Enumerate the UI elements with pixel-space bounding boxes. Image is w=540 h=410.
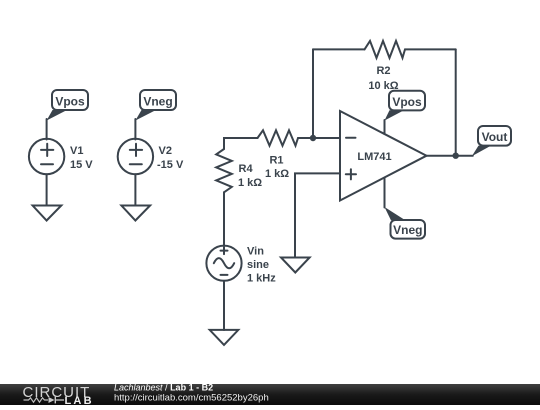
wire V1 flag lead xyxy=(46,119,48,140)
ground (V2) xyxy=(121,206,150,221)
svg-text:V2: V2 xyxy=(159,145,172,157)
wire feedback top right xyxy=(405,48,456,50)
svg-text:Vneg: Vneg xyxy=(143,95,172,109)
node junction at inverting input xyxy=(310,135,316,141)
svg-text:Vneg: Vneg xyxy=(393,223,422,237)
ground (V1) xyxy=(33,206,62,221)
svg-text:V1: V1 xyxy=(70,145,83,157)
svg-text:1 kHz: 1 kHz xyxy=(247,273,276,285)
svg-text:15 V: 15 V xyxy=(70,159,93,171)
wire non-inverting input to ground xyxy=(295,173,340,257)
wire Vin to ground xyxy=(223,281,225,330)
resistor R2 xyxy=(365,41,406,58)
svg-text:Vpos: Vpos xyxy=(392,95,422,109)
wire V2 to ground xyxy=(134,174,136,205)
wire feedback top left xyxy=(313,48,365,50)
label Vin sine 1 kHz xyxy=(247,246,276,285)
net flag Vout xyxy=(472,126,511,156)
op-amp V+ supply pin xyxy=(384,120,386,134)
svg-text:R4: R4 xyxy=(239,163,254,175)
source Vin sine xyxy=(206,246,241,281)
CircuitLab logo resistor symbol xyxy=(24,398,49,402)
wire V2 flag lead xyxy=(134,119,136,140)
svg-text:Lachlanbest / Lab 1 - B2: Lachlanbest / Lab 1 - B2 xyxy=(114,384,213,393)
svg-text:Vpos: Vpos xyxy=(55,95,85,109)
label R2 10 kOhm xyxy=(368,65,398,92)
resistor R4 xyxy=(216,149,232,192)
wire R4 to Vin xyxy=(223,192,225,246)
wire R1 to op-amp inverting input xyxy=(298,137,340,139)
wire feedback right vertical xyxy=(455,49,457,155)
label V2 -15 V xyxy=(157,145,184,171)
svg-text:-15 V: -15 V xyxy=(157,159,184,171)
svg-text:http://circuitlab.com/cm56252b: http://circuitlab.com/cm56252by26ph xyxy=(114,392,269,403)
wire op-amp output xyxy=(427,155,473,157)
svg-text:1 kΩ: 1 kΩ xyxy=(238,177,262,189)
net flag Vpos (V1) xyxy=(47,90,88,121)
CircuitLab logo diode symbol xyxy=(49,397,65,404)
svg-text:Vin: Vin xyxy=(247,246,264,258)
svg-text:R1: R1 xyxy=(269,155,283,167)
wire feedback left vertical xyxy=(312,49,314,138)
svg-text:1 kΩ: 1 kΩ xyxy=(265,168,289,180)
ground (Vin) xyxy=(210,330,239,345)
wire R4 top corner to R1 xyxy=(224,138,258,149)
net flag Vneg (V2) xyxy=(135,90,176,121)
node junction at output xyxy=(453,153,459,159)
voltage source V1 xyxy=(29,139,64,174)
net flag Vneg (op-amp supply) xyxy=(385,207,426,239)
voltage source V2 xyxy=(118,139,153,174)
net flag Vpos (op-amp supply) xyxy=(385,91,426,121)
label R1 1 kOhm xyxy=(265,155,289,181)
op-amp U1 LM741 xyxy=(340,111,427,201)
svg-text:R2: R2 xyxy=(376,65,390,77)
footer bar xyxy=(0,384,540,405)
label V1 15 V xyxy=(70,145,93,171)
svg-text:LM741: LM741 xyxy=(357,151,391,163)
svg-text:Vout: Vout xyxy=(482,130,508,144)
label R4 1 kOhm xyxy=(238,163,262,189)
ground (non-inverting input) xyxy=(281,258,310,273)
resistor R1 xyxy=(258,130,299,145)
svg-text:sine: sine xyxy=(247,259,269,271)
svg-text:LAB: LAB xyxy=(65,395,94,405)
op-amp V- supply pin xyxy=(384,178,386,208)
wire V1 to ground xyxy=(46,174,48,205)
